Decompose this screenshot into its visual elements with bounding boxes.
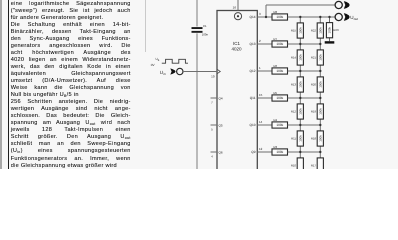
svg-text:100n: 100n xyxy=(202,33,209,37)
svg-text:10: 10 xyxy=(211,74,215,78)
svg-text:100k: 100k xyxy=(318,81,322,88)
resistor R6 100k xyxy=(272,64,288,74)
svg-text:100k: 100k xyxy=(276,42,283,46)
resistor R14 100k (ladder col1 gap2) xyxy=(291,43,304,71)
svg-text:100k: 100k xyxy=(298,135,302,142)
svg-text:R7: R7 xyxy=(274,37,278,41)
svg-text:15: 15 xyxy=(259,93,263,97)
svg-text:14: 14 xyxy=(259,120,263,124)
wire rail 3 xyxy=(288,70,321,72)
resistor R5 100k xyxy=(272,91,288,101)
input label Uin xyxy=(160,70,166,76)
pin 16 supply wire xyxy=(233,0,238,11)
svg-text:Q13: Q13 xyxy=(249,42,255,46)
svg-text:100k: 100k xyxy=(318,54,322,61)
svg-text:Q14: Q14 xyxy=(249,15,255,19)
wire rail 5 xyxy=(288,124,321,126)
output Q11 pin 15 wire xyxy=(250,93,272,100)
svg-text:Q10: Q10 xyxy=(249,123,255,127)
unused output Q6 pin 4 xyxy=(211,150,223,158)
svg-text:0V: 0V xyxy=(151,63,156,67)
resistor R17 100k (ladder col2 gap6, cut off) xyxy=(311,151,324,173)
svg-text:16: 16 xyxy=(233,6,237,10)
svg-text:R4: R4 xyxy=(274,118,278,122)
output Q12 pin 1 wire xyxy=(249,66,272,73)
svg-text:100k: 100k xyxy=(276,150,283,154)
svg-text:100k: 100k xyxy=(298,27,302,34)
svg-text:100k: 100k xyxy=(328,26,332,33)
output Q10 pin 14 wire xyxy=(249,120,272,127)
svg-text:R20: R20 xyxy=(311,83,317,87)
svg-text:IC1: IC1 xyxy=(233,41,241,46)
ground symbol xyxy=(325,41,335,43)
svg-text:100k: 100k xyxy=(318,27,322,34)
svg-text:3: 3 xyxy=(259,12,261,16)
svg-text:R18: R18 xyxy=(311,137,317,141)
svg-text:R14: R14 xyxy=(291,56,297,60)
svg-text:Q11: Q11 xyxy=(250,96,256,100)
svg-text:R8: R8 xyxy=(274,10,278,14)
output Q14 pin 3 wire xyxy=(249,12,272,19)
resistor R20 100k (ladder col2 gap3) xyxy=(311,70,324,98)
svg-text:R6: R6 xyxy=(274,64,278,68)
wire rail 1 xyxy=(288,16,336,18)
input plug symbol xyxy=(170,68,175,74)
svg-text:R17: R17 xyxy=(311,164,317,168)
resistor R3 100k xyxy=(272,145,288,155)
svg-text:100k: 100k xyxy=(298,54,302,61)
output Q13 pin 2 wire xyxy=(249,39,272,46)
svg-text:R19: R19 xyxy=(311,110,317,114)
svg-text:4: 4 xyxy=(211,155,213,159)
svg-text:100k: 100k xyxy=(276,96,283,100)
column divider rule xyxy=(145,0,147,52)
power terminal symbol inside IC xyxy=(234,13,241,20)
capacitor C1 100n xyxy=(192,24,209,36)
resistor R15 100k (ladder col1 gap1) xyxy=(291,16,304,44)
svg-text:R22: R22 xyxy=(311,29,317,33)
resistor R4 100k xyxy=(272,118,288,128)
output terminal Uout xyxy=(335,13,358,21)
svg-text:Uout: Uout xyxy=(350,15,358,21)
svg-text:7: 7 xyxy=(211,101,213,105)
top terminal xyxy=(335,1,350,9)
svg-text:4020: 4020 xyxy=(231,47,242,52)
wire rail 4 xyxy=(288,97,321,99)
svg-text:100k: 100k xyxy=(276,123,283,127)
svg-text:R11: R11 xyxy=(291,137,296,141)
svg-text:R3: R3 xyxy=(274,145,278,149)
unused output Q5 pin 5 xyxy=(211,123,223,131)
resistor R13 100k (ladder col1 gap3) xyxy=(291,70,304,98)
wire rail 6 xyxy=(288,151,321,153)
svg-text:2: 2 xyxy=(259,39,261,43)
svg-text:5: 5 xyxy=(211,128,213,132)
svg-text:Uin: Uin xyxy=(160,70,166,76)
resistor R11 100k (ladder col1 gap5) xyxy=(291,124,303,152)
resistor R21 100k (ladder col2 gap2) xyxy=(311,43,324,71)
resistor R22 100k (ladder col2 gap1) xyxy=(311,16,324,44)
svg-text:100k: 100k xyxy=(298,108,302,115)
svg-text:R10: R10 xyxy=(291,164,297,168)
svg-text:R23: R23 xyxy=(333,28,339,32)
svg-text:UB: UB xyxy=(156,57,160,62)
wire rail 2 xyxy=(288,43,321,45)
resistor R12 100k (ladder col1 gap4) xyxy=(291,97,304,125)
svg-text:R5: R5 xyxy=(274,91,278,95)
output Q9 pin 12 wire xyxy=(251,147,272,154)
svg-text:100k: 100k xyxy=(298,81,302,88)
IC U1 4020 body xyxy=(217,11,257,171)
svg-text:Q6: Q6 xyxy=(219,150,223,154)
unused output Q4 pin 7 xyxy=(211,96,223,104)
svg-text:100k: 100k xyxy=(318,108,322,115)
svg-text:R12: R12 xyxy=(291,110,297,114)
square wave input symbol xyxy=(151,57,188,67)
svg-text:C1: C1 xyxy=(203,24,207,28)
svg-text:R21: R21 xyxy=(311,56,317,60)
svg-text:R13: R13 xyxy=(291,83,297,87)
riser wire to top terminal xyxy=(265,5,335,18)
resistor R18 100k (ladder col2 gap5) xyxy=(311,124,324,152)
svg-text:R15: R15 xyxy=(291,29,297,33)
resistor R7 100k xyxy=(272,37,288,47)
resistor R19 100k (ladder col2 gap4) xyxy=(311,97,324,125)
svg-text:1: 1 xyxy=(259,66,261,70)
resistor R10 100k (ladder col1 gap6, cut off) xyxy=(291,151,304,173)
svg-text:Q12: Q12 xyxy=(249,69,255,73)
svg-text:100k: 100k xyxy=(276,15,283,19)
wire supply vertical through C1 xyxy=(196,0,198,169)
resistor R23 100k (ladder terminator) xyxy=(326,16,339,41)
svg-text:Q9: Q9 xyxy=(251,150,255,154)
svg-text:12: 12 xyxy=(259,147,263,151)
input terminal Uin xyxy=(177,68,183,74)
svg-text:Q4: Q4 xyxy=(219,96,223,100)
resistor R8 100k xyxy=(272,10,288,20)
wire Uin to clock pin 10 xyxy=(183,69,220,78)
svg-text:100k: 100k xyxy=(318,135,322,142)
svg-text:Q5: Q5 xyxy=(219,123,223,127)
svg-text:100k: 100k xyxy=(276,69,283,73)
